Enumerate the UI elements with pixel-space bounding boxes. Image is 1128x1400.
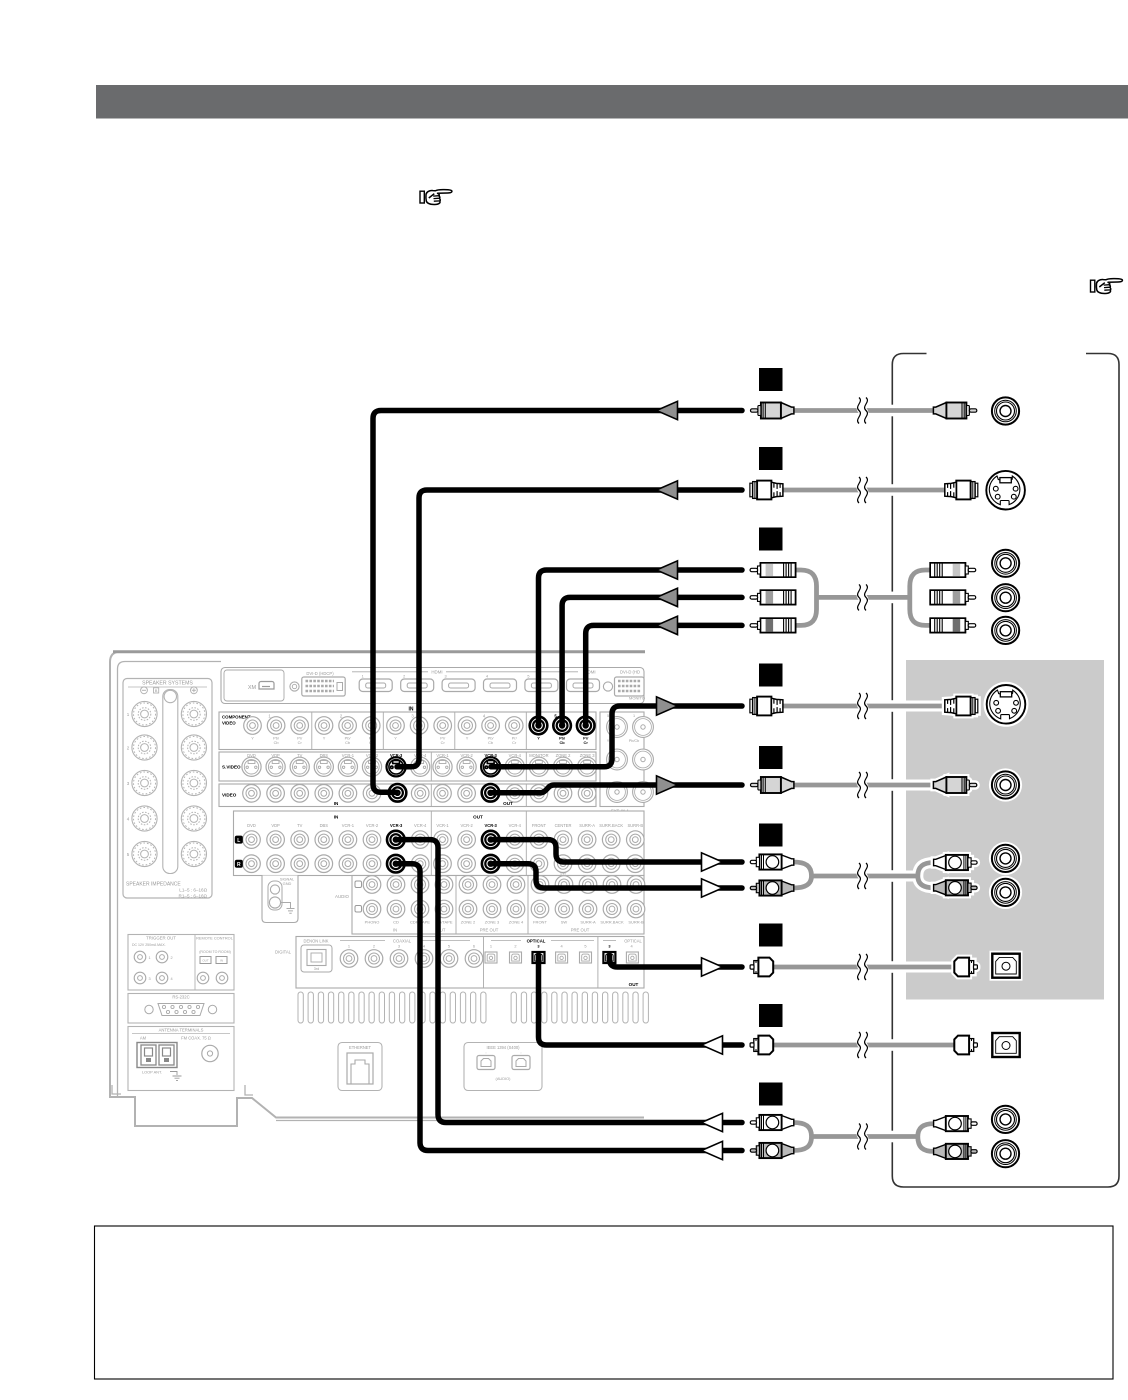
jack row9 L — [992, 1106, 1019, 1133]
title bar — [96, 85, 1128, 119]
svg-text:L: L — [237, 838, 240, 844]
svg-text:1: 1 — [348, 944, 350, 949]
svg-text:IN: IN — [393, 928, 397, 933]
svg-text:S.VIDEO: S.VIDEO — [222, 765, 241, 770]
plug row8 left — [750, 1036, 773, 1055]
arrow row1 to receiver — [657, 401, 678, 419]
svg-text:Cr: Cr — [512, 740, 517, 745]
svg-text:5: 5 — [448, 944, 450, 949]
svg-text:DIGITAL: DIGITAL — [275, 950, 292, 955]
cable row1 video — [793, 405, 934, 416]
svg-text:5: 5 — [527, 675, 529, 679]
plug row4 right — [945, 697, 978, 716]
svg-text:4: 4 — [486, 675, 488, 679]
pointing-hand icon 2 — [1091, 279, 1123, 294]
squiggle row2 — [858, 477, 868, 503]
svg-text:2: 2 — [403, 675, 405, 679]
plug row5 right — [933, 777, 976, 793]
wire video-in row1 — [373, 411, 742, 793]
arrow row2 to receiver — [657, 481, 678, 499]
svg-text:PRE OUT: PRE OUT — [480, 928, 499, 933]
device box outline — [892, 354, 1119, 1188]
jack row5 video-out — [989, 768, 1022, 801]
arrow row9 L to receiver — [702, 1113, 723, 1131]
plug row9 L left — [750, 1115, 794, 1130]
wire component-Pr row3 — [586, 625, 742, 725]
svg-text:IN: IN — [334, 801, 339, 806]
arrow row6 L to tv — [702, 853, 723, 871]
step square 7 — [759, 924, 783, 947]
speaker systems block — [123, 679, 212, 899]
component-in-5 Pb jack highlighted — [553, 717, 571, 735]
svg-text:1: 1 — [148, 956, 150, 960]
plug row6 R right halo — [934, 880, 978, 895]
plug row3 Pb right — [930, 590, 976, 604]
jack row6 R — [989, 876, 1022, 909]
svg-text:3rd: 3rd — [314, 967, 320, 971]
ext-in section — [600, 712, 653, 807]
svg-text:DVI-D (HDCP): DVI-D (HDCP) — [306, 671, 334, 676]
jack row4 s-video — [984, 682, 1029, 727]
video row — [219, 784, 596, 807]
arrow row9 R to receiver — [702, 1141, 723, 1159]
jack row6 L — [989, 842, 1022, 875]
arrow row6 R to tv — [702, 879, 723, 897]
svg-text:SURR-A: SURR-A — [580, 920, 596, 925]
svg-text:VCR-4: VCR-4 — [414, 823, 427, 828]
wire audio-out-L row6 — [491, 840, 742, 862]
svg-text:IN: IN — [220, 959, 223, 963]
jack row3 Pb — [992, 584, 1019, 611]
svg-text:1: 1 — [362, 675, 364, 679]
svg-text:PRE OUT: PRE OUT — [571, 928, 590, 933]
pointing-hand icon 1 — [420, 190, 452, 205]
arrow row8 to receiver — [702, 1036, 723, 1054]
svg-text:Cr: Cr — [584, 740, 589, 745]
note box — [95, 1226, 1114, 1379]
s-video VCR-3 out jack highlighted — [481, 757, 500, 776]
svg-text:FM COAX. 75 Ω: FM COAX. 75 Ω — [181, 1036, 211, 1041]
squiggle row9 — [858, 1124, 868, 1150]
svg-text:SURR-B: SURR-B — [627, 823, 643, 828]
top connector box with XM DVI HDMI — [221, 668, 645, 704]
squiggle row5 — [858, 772, 868, 798]
svg-text:(ROOM TO ROOM): (ROOM TO ROOM) — [199, 950, 231, 954]
plug row3 Pb left — [750, 590, 796, 604]
svg-text:DVI-D (HD: DVI-D (HD — [620, 670, 640, 675]
svg-text:SURR.BACK: SURR.BACK — [599, 823, 623, 828]
svg-text:PHONO: PHONO — [365, 920, 380, 925]
svg-text:2: 2 — [514, 944, 516, 949]
jack row2 s-video — [986, 471, 1025, 510]
video VCR-3 in jack highlighted — [389, 784, 407, 802]
wire s-video-out row4 — [491, 706, 742, 767]
step square 6 — [759, 824, 783, 847]
plug row7 left — [750, 958, 773, 977]
svg-text:MONITO: MONITO — [629, 696, 645, 701]
step square 2 — [759, 447, 783, 470]
svg-text:Y: Y — [251, 736, 254, 741]
audio VCR-3 out L jack highlighted — [482, 831, 500, 849]
svg-text:OUT: OUT — [503, 801, 513, 806]
rs-232c block — [128, 994, 234, 1024]
svg-text:3: 3 — [445, 675, 447, 679]
arrow row3 Pb to receiver — [657, 588, 678, 606]
svg-text:ANTENNA TERMINALS: ANTENNA TERMINALS — [159, 1028, 204, 1033]
arrow row7 to tv — [702, 958, 723, 976]
svg-text:Y: Y — [394, 736, 397, 741]
svg-text:OPTICAL: OPTICAL — [527, 938, 546, 943]
wire audio-out-R row6 — [491, 864, 742, 888]
step square 1 — [759, 368, 783, 391]
plug row3 Y right — [930, 563, 976, 577]
plug row3 Pr left — [750, 618, 796, 632]
svg-text:SW: SW — [560, 872, 567, 876]
svg-text:1: 1 — [633, 714, 635, 718]
step square 8 — [759, 1004, 783, 1027]
cable row6 audio pair — [793, 862, 934, 888]
svg-text:Y: Y — [537, 736, 540, 741]
component-in-5 Y jack highlighted — [530, 717, 548, 735]
cable row4 s-video — [782, 701, 946, 712]
video VCR-3 out jack highlighted — [482, 784, 500, 802]
svg-text:Cb: Cb — [560, 740, 566, 745]
svg-text:3: 3 — [148, 977, 150, 981]
svg-text:5: 5 — [584, 944, 586, 949]
svg-text:TV: TV — [297, 823, 303, 828]
plug row4 right halo — [945, 697, 978, 716]
wire audio-in-L row9 — [396, 840, 742, 1123]
svg-text:Y: Y — [466, 736, 469, 741]
audio VCR-3 out R jack highlighted — [482, 855, 500, 873]
svg-text:DENON LINK: DENON LINK — [303, 939, 328, 944]
svg-text:Cb: Cb — [345, 740, 350, 745]
trigger out remote control block — [128, 935, 234, 991]
step square 3 — [759, 528, 783, 551]
plug row2 left — [750, 481, 783, 500]
plug row5 right halo — [933, 777, 976, 793]
plug row2 right — [945, 481, 978, 500]
s-video VCR-3 in jack highlighted — [387, 757, 406, 776]
svg-text:REMOTE CONTROL: REMOTE CONTROL — [196, 936, 234, 941]
audio section upper box — [234, 811, 645, 876]
component-in-5 Pr jack highlighted — [577, 717, 595, 735]
wire component-Y row3 — [539, 570, 743, 726]
cable row8 optical — [772, 1043, 955, 1048]
cable row7 optical — [772, 962, 955, 973]
plug row6 L left — [750, 854, 794, 869]
svg-text:Cb: Cb — [488, 740, 493, 745]
arrow row4 to tv — [657, 697, 678, 715]
squiggle row4 — [858, 693, 868, 719]
squiggle row7 — [858, 954, 868, 980]
jack row9 R — [992, 1140, 1019, 1167]
s-video row — [219, 752, 597, 781]
audio VCR-3 in R jack highlighted — [387, 855, 405, 873]
svg-text:CENTER: CENTER — [555, 823, 572, 828]
svg-text:RS-232C: RS-232C — [172, 995, 189, 1000]
svg-text:ETHERNET: ETHERNET — [349, 1045, 372, 1050]
ieee1394 block — [464, 1043, 542, 1091]
svg-text:VIDEO: VIDEO — [222, 793, 237, 798]
plug row7 right — [954, 958, 977, 977]
svg-text:VCR-2: VCR-2 — [366, 823, 379, 828]
receiver top edge — [113, 650, 645, 653]
svg-text:R: R — [237, 862, 241, 868]
svg-text:CD: CD — [393, 920, 399, 925]
svg-text:HDMI: HDMI — [431, 670, 442, 675]
plug row1 right — [933, 403, 976, 419]
wire component-Pb row3 — [562, 597, 742, 725]
svg-text:VCR-2: VCR-2 — [460, 823, 473, 828]
component video section — [219, 712, 596, 750]
step square 9 — [759, 1083, 783, 1106]
svg-text:OPTICAL: OPTICAL — [624, 938, 642, 943]
plug row6 R right — [934, 880, 978, 895]
svg-text:Cr: Cr — [441, 740, 446, 745]
svg-text:OUT: OUT — [629, 982, 639, 987]
svg-text:VCR-1: VCR-1 — [342, 823, 355, 828]
plug row3 Y left — [750, 563, 796, 577]
cable row3 component — [794, 570, 933, 625]
plug row6 L right halo — [934, 855, 978, 870]
svg-text:VDP: VDP — [271, 823, 280, 828]
svg-text:1: 1 — [490, 944, 492, 949]
audio VCR-3 in L jack highlighted — [387, 831, 405, 849]
arrow row3 Pr to receiver — [657, 616, 678, 634]
wire audio-in-R row9 — [396, 864, 742, 1151]
svg-text:SPEAKER SYSTEMS: SPEAKER SYSTEMS — [142, 681, 193, 687]
svg-text:OUT: OUT — [202, 959, 209, 963]
step square 5 — [759, 746, 783, 769]
svg-text:DC 12V 250mA MAX.: DC 12V 250mA MAX. — [132, 943, 166, 947]
svg-text:Pb/Cb: Pb/Cb — [629, 739, 640, 743]
squiggle row1 — [858, 398, 868, 424]
wire optical-out row7 — [609, 955, 742, 967]
svg-text:IN: IN — [334, 815, 339, 820]
vent slots — [298, 992, 648, 1023]
arrow row5 to tv — [657, 776, 678, 794]
svg-text:2: 2 — [170, 956, 172, 960]
svg-text:IEEE 1394 (S400): IEEE 1394 (S400) — [487, 1045, 521, 1050]
svg-text:COAXIAL: COAXIAL — [393, 938, 412, 943]
svg-text:AM: AM — [140, 1036, 147, 1041]
svg-text:B: B — [155, 688, 158, 693]
wire optical-in row8 — [539, 955, 743, 1045]
svg-text:DVD: DVD — [247, 823, 256, 828]
svg-text:FRONT: FRONT — [533, 920, 547, 925]
cable row2 s-video — [782, 488, 946, 493]
svg-text:SURR-B: SURR-B — [628, 920, 644, 925]
cable row9 audio pair — [793, 1123, 934, 1152]
svg-text:4: 4 — [170, 977, 172, 981]
svg-text:R1–5 : 6–16Ω: R1–5 : 6–16Ω — [179, 894, 208, 899]
plug row4 left — [750, 697, 783, 716]
plug row9 L right — [934, 1116, 978, 1131]
svg-text:ZONE 3: ZONE 3 — [485, 920, 500, 925]
svg-text:VCR-1: VCR-1 — [436, 823, 449, 828]
squiggle row3 — [858, 584, 868, 610]
svg-text:Cr: Cr — [298, 740, 303, 745]
receiver chassis outline — [110, 652, 645, 1127]
svg-text:Y: Y — [323, 736, 326, 741]
digital section with denon link coaxial optical — [275, 937, 644, 989]
plug row9 R right — [934, 1144, 978, 1159]
svg-text:3: 3 — [398, 944, 400, 949]
cable row5 video — [793, 780, 934, 791]
svg-text:SURR-A: SURR-A — [579, 823, 595, 828]
svg-text:2: 2 — [373, 944, 375, 949]
svg-text:VCR-4: VCR-4 — [509, 823, 522, 828]
plug row6 L right — [934, 855, 978, 870]
svg-text:OUT: OUT — [473, 815, 483, 820]
plug row3 Pr right — [930, 618, 976, 632]
plug row7 right halo — [954, 958, 977, 977]
svg-text:LOOP ANT.: LOOP ANT. — [142, 1070, 162, 1075]
svg-text:VCR-3: VCR-3 — [390, 823, 403, 828]
svg-text:FRONT: FRONT — [532, 823, 547, 828]
jack row3 Pr — [992, 617, 1019, 644]
jack row3 Y — [992, 550, 1019, 577]
plug row6 R left — [750, 880, 794, 895]
plug row9 R left — [750, 1143, 794, 1158]
svg-text:(AUDIO): (AUDIO) — [496, 1076, 512, 1081]
svg-text:6: 6 — [473, 944, 475, 949]
wire video-out row5 — [491, 785, 743, 793]
plug row8 right — [954, 1036, 977, 1055]
plug row1 left — [751, 403, 794, 419]
svg-text:L1–5 : 6–16Ω: L1–5 : 6–16Ω — [179, 888, 207, 893]
svg-text:AUDIO: AUDIO — [335, 894, 349, 899]
white gaps where cables cross device border — [887, 405, 897, 1143]
squiggle row6 — [858, 863, 868, 889]
svg-text:Cb: Cb — [274, 740, 279, 745]
svg-text:VCR-3: VCR-3 — [485, 823, 498, 828]
jack row1 video-in — [992, 397, 1019, 424]
svg-text:ZONE 2: ZONE 2 — [461, 920, 476, 925]
svg-text:SPEAKER IMPEDANCE: SPEAKER IMPEDANCE — [126, 882, 181, 888]
svg-text:ZONE 4: ZONE 4 — [509, 920, 524, 925]
svg-text:5: 5 — [607, 714, 609, 718]
gray highlight box in device — [906, 660, 1104, 1000]
svg-text:VIDEO: VIDEO — [222, 721, 236, 726]
svg-text:SURR.BACK: SURR.BACK — [600, 920, 624, 925]
antenna terminals block — [128, 1027, 234, 1091]
arrow row3 Y to receiver — [657, 561, 678, 579]
signal gnd block — [262, 876, 298, 923]
svg-text:SW: SW — [561, 920, 568, 925]
svg-text:TRIGGER OUT: TRIGGER OUT — [146, 936, 176, 941]
plug row5 left — [751, 777, 794, 793]
jack row7 optical — [990, 951, 1023, 981]
ethernet block — [338, 1043, 382, 1091]
squiggle row8 — [858, 1032, 868, 1058]
jack row8 optical — [992, 1033, 1019, 1057]
audio lower box phono cd rows — [335, 876, 645, 935]
svg-text:DBS: DBS — [320, 823, 329, 828]
step square 4 — [759, 664, 783, 687]
wire s-video-in row2 — [397, 490, 742, 767]
svg-text:GND: GND — [283, 881, 292, 886]
svg-text:XM: XM — [248, 685, 257, 691]
